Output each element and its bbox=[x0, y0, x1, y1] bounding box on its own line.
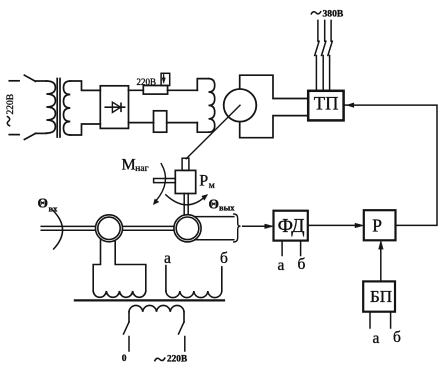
transformer T1 secondary winding bbox=[64, 81, 71, 135]
svg-text:БП: БП bbox=[370, 287, 392, 306]
svg-text:0: 0 bbox=[122, 354, 127, 364]
selsyn B1 stator winding scallops bbox=[93, 291, 146, 297]
curly brace bbox=[234, 214, 241, 242]
selsyn transmitter B1 outer circle bbox=[96, 215, 123, 242]
svg-text:м: м bbox=[209, 181, 215, 191]
selsyn receiver B2 inner circle bbox=[176, 217, 199, 240]
terminal line left bbox=[128, 337, 130, 352]
machine field winding L1 bottom jog bbox=[197, 123, 208, 133]
feedback wire R to TP bbox=[352, 105, 438, 225]
shaft between selsyns double line bbox=[123, 226, 174, 230]
arrowhead into TP bbox=[347, 103, 354, 107]
svg-text:б: б bbox=[393, 329, 401, 346]
block BP box bbox=[363, 281, 395, 311]
BP terminal b stub bbox=[390, 312, 392, 328]
svg-text:М: М bbox=[122, 157, 136, 174]
rotor winding left tail bbox=[128, 312, 130, 322]
wire top terminal bbox=[9, 80, 19, 82]
block FD box bbox=[274, 211, 308, 241]
arc theta-out with arrow bbox=[166, 195, 205, 205]
magnetic core bar bbox=[75, 299, 224, 301]
selsyn B1 stator leads funnel bbox=[93, 239, 146, 292]
block R box bbox=[364, 210, 396, 240]
wire rectifier to resistor R2 bbox=[128, 122, 153, 124]
phase line A bbox=[315, 20, 319, 90]
motor RM box bbox=[175, 170, 195, 193]
rectifier VD1 diode symbol bbox=[105, 106, 124, 108]
wire bottom to transformer bbox=[36, 132, 47, 134]
wire potentiometer to field winding bbox=[167, 89, 197, 91]
FD terminal a stub bbox=[281, 241, 283, 256]
wire brace to FD bbox=[243, 225, 266, 227]
wire secondary bottom to rectifier bbox=[70, 124, 100, 135]
transformer T1 primary winding bbox=[46, 81, 55, 133]
phase line C bbox=[328, 20, 332, 90]
svg-text:наг: наг bbox=[135, 164, 148, 174]
machine field winding L1 bbox=[209, 79, 215, 133]
rotor winding right tail bbox=[183, 312, 185, 322]
transformer T1 core bbox=[57, 79, 60, 138]
wire secondary top to rectifier bbox=[70, 81, 100, 90]
resistor R2 body bbox=[154, 111, 167, 132]
svg-text:220В: 220В bbox=[167, 354, 187, 364]
switch SA1 bottom blade bbox=[24, 133, 35, 139]
rotor excitation winding scallops bbox=[129, 305, 184, 311]
svg-text:220В: 220В bbox=[137, 77, 157, 87]
arrowhead into FD bbox=[265, 224, 274, 228]
switch SA1 top blade bbox=[24, 75, 35, 81]
svg-text:вх: вх bbox=[49, 204, 59, 214]
FD terminal b stub bbox=[300, 241, 302, 256]
label ~380V bbox=[311, 12, 320, 14]
svg-text:380В: 380В bbox=[323, 8, 344, 19]
potentiometer R1 body bbox=[143, 86, 167, 95]
svg-text:Р: Р bbox=[199, 173, 208, 190]
arc M-nag with arrow bbox=[156, 164, 166, 201]
wire rectifier to potentiometer bbox=[128, 89, 143, 91]
arrowhead into R bbox=[355, 223, 364, 227]
node ~220V source label bbox=[7, 117, 9, 126]
phase line B bbox=[322, 20, 326, 90]
block TP box bbox=[308, 91, 343, 121]
selsyn B2 stator lead a bbox=[165, 266, 167, 291]
svg-text:220В: 220В bbox=[6, 94, 16, 115]
wire bottom terminal bbox=[9, 134, 19, 136]
svg-text:Θ: Θ bbox=[38, 196, 49, 211]
rotor output line top bbox=[194, 216, 233, 218]
selsyn B2 stator winding scallops bbox=[166, 291, 222, 298]
machine field winding L1 top jog bbox=[197, 79, 208, 91]
svg-text:Р: Р bbox=[372, 215, 382, 235]
load shaft rectangle bbox=[154, 179, 176, 183]
potentiometer R1 wiper arrow bbox=[163, 75, 165, 79]
switch blade left bbox=[124, 322, 130, 334]
terminal line right bbox=[184, 337, 186, 352]
potentiometer R1 wiper box bbox=[161, 73, 170, 85]
arc theta-in bbox=[53, 210, 63, 249]
wire top to transformer bbox=[36, 80, 47, 82]
svg-text:а: а bbox=[373, 330, 380, 347]
svg-text:Θ: Θ bbox=[209, 197, 220, 212]
svg-text:б: б bbox=[220, 250, 228, 267]
label ~220V bottom bbox=[155, 358, 165, 361]
wire BP to R bbox=[380, 249, 382, 281]
input shaft double line bbox=[41, 226, 95, 230]
BP terminal a stub bbox=[369, 312, 371, 328]
selsyn transmitter B1 inner circle bbox=[98, 217, 120, 239]
svg-text:ФД: ФД bbox=[278, 216, 305, 237]
machine yoke frame bbox=[240, 75, 309, 138]
svg-text:а: а bbox=[278, 257, 285, 274]
arrowhead into R bbox=[379, 241, 383, 250]
wire FD to R bbox=[308, 224, 355, 226]
mechanical shaft diagonal bbox=[186, 105, 240, 158]
selsyn receiver B2 outer circle bbox=[174, 215, 201, 242]
selsyn B2 stator lead b bbox=[221, 267, 223, 291]
wire resistor R2 to field winding bbox=[167, 122, 198, 124]
machine armature circle G1 bbox=[224, 89, 257, 122]
rectifier VD1 box bbox=[100, 86, 128, 129]
svg-text:б: б bbox=[298, 256, 306, 273]
switch blade right bbox=[179, 322, 185, 334]
motor RM shaft upper stub bbox=[182, 158, 189, 170]
rotor output line bottom bbox=[195, 239, 234, 241]
svg-text:вых: вых bbox=[219, 203, 235, 213]
svg-text:ТП: ТП bbox=[314, 95, 339, 115]
svg-text:а: а bbox=[164, 250, 171, 267]
motor RM shaft to selsyn double line bbox=[184, 194, 188, 215]
